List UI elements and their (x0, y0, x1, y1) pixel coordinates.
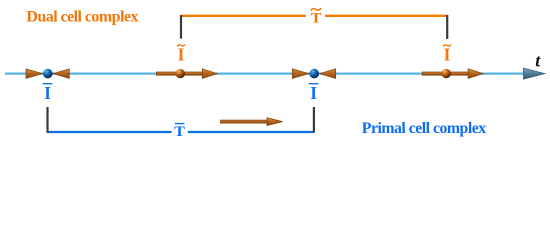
svg-text:Primal cell complex: Primal cell complex (362, 120, 486, 137)
svg-text:T: T (311, 11, 322, 27)
svg-text:t: t (535, 51, 541, 71)
converging arrowheads at primal node C (26, 69, 69, 79)
orientation arrow of primal interval (221, 118, 283, 126)
primal interval label T-bar (174, 123, 185, 140)
orientation arrow through dual node B (422, 69, 483, 79)
orientation arrow through dual node A (156, 69, 217, 79)
svg-text:I: I (444, 44, 451, 64)
dual bracket left tick (180, 15, 182, 39)
time axis wire (5, 72, 528, 74)
primal bracket right tick (313, 107, 315, 133)
dual node label I-tilde left (177, 44, 185, 64)
primal bracket left tick (46, 107, 48, 133)
time axis arrowhead (524, 68, 545, 79)
primal node ball D (309, 69, 319, 79)
dual node ball B (442, 69, 451, 78)
svg-text:I: I (44, 83, 51, 103)
svg-text:Dual cell complex: Dual cell complex (26, 9, 138, 26)
svg-text:I: I (178, 44, 185, 64)
primal bracket wire (48, 131, 314, 133)
svg-text:I: I (310, 83, 317, 103)
dual bracket right tick (446, 15, 448, 39)
dual node ball A (176, 69, 185, 78)
dual node label I-tilde right (443, 44, 451, 64)
svg-text:T: T (174, 124, 185, 140)
primal node label I-bar left (43, 83, 53, 103)
converging arrowheads at primal node D (292, 69, 335, 79)
primal node ball C (43, 69, 53, 79)
dual bracket wire (181, 15, 447, 17)
primal node label I-bar right (309, 83, 319, 103)
dual interval label T-tilde (311, 8, 322, 26)
